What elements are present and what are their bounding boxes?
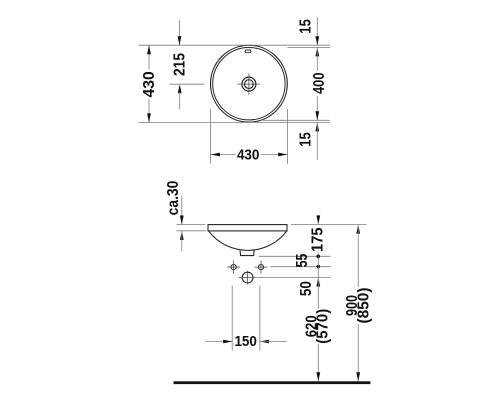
top tangent extension line	[139, 44, 331, 46]
outer-bottom tangent extension line	[139, 121, 330, 123]
dimension 175	[310, 215, 327, 256]
svg-text:(570): (570)	[315, 309, 332, 344]
extension line outlet level	[259, 255, 331, 257]
svg-text:215: 215	[172, 53, 189, 76]
dimension 430 (left vertical)	[141, 45, 158, 122]
inner-top extension line (right)	[288, 46, 331, 48]
dimension 400 (right vertical)	[311, 47, 328, 120]
drain inner circle	[245, 80, 254, 89]
fixing hole left	[227, 261, 240, 274]
svg-text:15: 15	[298, 132, 315, 147]
fixing hole right	[254, 261, 267, 274]
waste hole	[239, 271, 256, 285]
svg-text:55: 55	[294, 254, 311, 268]
drain crosshair vertical	[248, 74, 250, 95]
inner-bottom extension line (right)	[263, 119, 330, 121]
drain outer circle	[242, 77, 256, 91]
dimension 620 (570)	[303, 278, 331, 382]
dimension 430 (bottom horizontal)	[210, 109, 287, 164]
svg-text:430: 430	[141, 71, 158, 97]
extension line rim top to right dims	[291, 224, 367, 226]
extension line waste level	[256, 277, 331, 279]
drain crosshair horizontal	[237, 83, 260, 85]
svg-text:50: 50	[298, 281, 315, 296]
svg-text:400: 400	[311, 72, 328, 94]
dimension 15 (bottom right)	[298, 122, 320, 160]
svg-text:ca.30: ca.30	[165, 181, 182, 216]
overflow slot	[245, 50, 251, 53]
dimension ca.30 (left)	[165, 181, 206, 251]
svg-text:150: 150	[234, 334, 257, 350]
basin outer circle	[211, 45, 288, 122]
bowl profile	[209, 231, 287, 250]
dimension 215 (vertical)	[170, 20, 205, 109]
centre tick for 215	[170, 83, 205, 85]
dimension 900 (850)	[344, 225, 372, 382]
drain stub	[240, 250, 254, 255]
svg-text:430: 430	[237, 147, 260, 163]
dimension 15 (top right)	[298, 17, 320, 45]
extension line fixing hole level	[271, 266, 331, 268]
dimension 50	[298, 267, 320, 297]
rim	[208, 225, 287, 231]
dimension 55	[294, 254, 320, 269]
dimension 150	[206, 286, 287, 351]
svg-text:(850): (850)	[355, 288, 372, 324]
svg-text:175: 175	[310, 227, 327, 252]
floor line	[174, 381, 371, 384]
svg-text:15: 15	[298, 19, 315, 34]
basin inner circle	[213, 47, 285, 119]
